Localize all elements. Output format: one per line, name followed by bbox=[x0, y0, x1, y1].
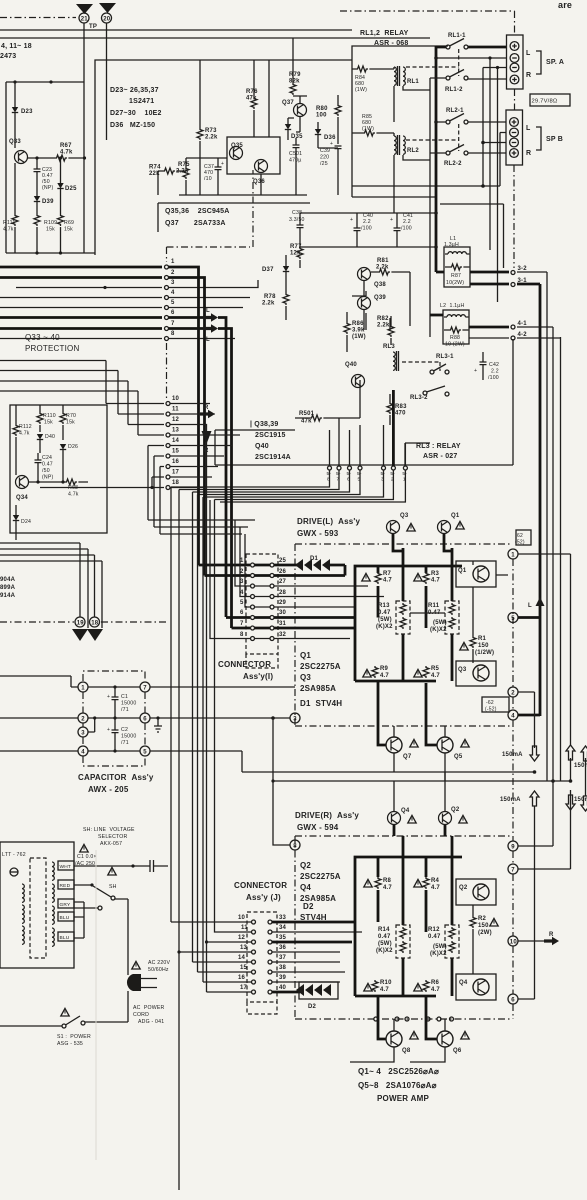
svg-text:15: 15 bbox=[172, 449, 180, 455]
transistor Q6 output bbox=[426, 996, 437, 1039]
coil L1 box bbox=[444, 247, 470, 287]
svg-text:2: 2 bbox=[511, 691, 515, 697]
node circle 7 bbox=[508, 864, 518, 874]
svg-text:SH: LINE VOLTAGE: SH: LINE VOLTAGE bbox=[83, 827, 135, 833]
svg-text:LTT - 762: LTT - 762 bbox=[2, 852, 26, 858]
resistor R12 dashed box bbox=[445, 925, 459, 958]
svg-text:ADG - 041: ADG - 041 bbox=[138, 1019, 164, 1025]
wire bold pin1 drop bbox=[169, 267, 199, 565]
switch S1 bbox=[61, 1008, 69, 1016]
svg-text:RL3 : RELAY: RL3 : RELAY bbox=[416, 443, 461, 450]
svg-text:Q35,36 2SC945A: Q35,36 2SC945A bbox=[165, 208, 230, 215]
label pins 1-8 bbox=[171, 259, 175, 337]
svg-text:12: 12 bbox=[172, 417, 180, 423]
svg-text:31: 31 bbox=[279, 621, 287, 627]
svg-text:+: + bbox=[107, 694, 110, 700]
relay contact RL1-2 bbox=[446, 76, 450, 80]
svg-text:Q4: Q4 bbox=[459, 980, 468, 986]
svg-text:34: 34 bbox=[279, 925, 287, 931]
wire row pin8 bbox=[0, 338, 162, 340]
wire conn J right rows bbox=[272, 922, 355, 942]
resistor R13 dashed box bbox=[396, 601, 410, 634]
svg-text:39: 39 bbox=[279, 975, 287, 981]
svg-text:2.2k: 2.2k bbox=[205, 135, 218, 141]
svg-text:33: 33 bbox=[279, 915, 287, 921]
svg-text:BLU: BLU bbox=[60, 915, 70, 921]
wire pin stubs right bbox=[170, 435, 240, 488]
wire 534 upper bbox=[534, 692, 536, 715]
svg-text:9: 9 bbox=[511, 845, 515, 851]
resistor R14 dashed box bbox=[396, 925, 410, 958]
transistor Q39 bbox=[358, 297, 371, 310]
svg-text:Q38: Q38 bbox=[374, 282, 386, 288]
diode D39 bbox=[34, 196, 40, 202]
wire L2 out bbox=[430, 314, 443, 317]
svg-text:10: 10 bbox=[510, 940, 518, 946]
wire SPA minus2 bbox=[483, 68, 507, 187]
connector I box bbox=[246, 554, 278, 654]
capacitor C23 bbox=[36, 158, 38, 169]
svg-text:21: 21 bbox=[81, 16, 89, 22]
svg-text:4.7k: 4.7k bbox=[19, 431, 30, 437]
svg-text:R13: R13 bbox=[378, 603, 390, 609]
node 18b bbox=[90, 617, 100, 627]
resistor R9 bbox=[363, 669, 371, 677]
svg-text:R80: R80 bbox=[316, 106, 328, 112]
svg-text:C1: C1 bbox=[121, 694, 128, 700]
svg-text:Q1: Q1 bbox=[300, 651, 311, 660]
wire L-box outer corner bbox=[440, 204, 504, 268]
wire rail 781 bbox=[273, 718, 571, 781]
svg-text:15: 15 bbox=[240, 965, 248, 971]
connector row on dashdot bbox=[374, 1017, 378, 1021]
svg-text:L: L bbox=[206, 337, 210, 343]
svg-text:5: 5 bbox=[171, 300, 175, 306]
svg-text:AKX-057: AKX-057 bbox=[100, 841, 122, 847]
relay contact RL2-2 bbox=[446, 151, 450, 155]
fuse bbox=[10, 868, 18, 876]
wire row pin11 bbox=[118, 413, 164, 415]
wire left mid staircase bbox=[0, 543, 102, 628]
svg-text:C24: C24 bbox=[42, 455, 52, 461]
svg-text:0.47: 0.47 bbox=[42, 462, 53, 468]
wire row pin3 bbox=[16, 287, 162, 289]
svg-text:Ass'y (J): Ass'y (J) bbox=[246, 893, 281, 902]
wire plug to S1 bbox=[85, 991, 128, 1022]
svg-text:-62: -62 bbox=[486, 700, 494, 706]
wire from node20 bbox=[106, 23, 108, 141]
svg-text:R5: R5 bbox=[431, 666, 440, 672]
svg-text:(5W): (5W) bbox=[378, 617, 392, 623]
label 29.7V/8ohm bbox=[530, 94, 570, 106]
wire row pin17 bbox=[152, 477, 164, 488]
svg-text:1: 1 bbox=[81, 686, 85, 692]
wire conn J left feeds bbox=[171, 500, 251, 943]
svg-text:R10: R10 bbox=[380, 980, 392, 986]
svg-text:SELECTOR: SELECTOR bbox=[98, 834, 128, 840]
wire row pin5 bbox=[0, 307, 162, 309]
svg-text:TP: TP bbox=[89, 24, 97, 30]
label 5-x pins bbox=[327, 471, 408, 483]
svg-text:DRIVE(R) Ass'y: DRIVE(R) Ass'y bbox=[295, 811, 359, 820]
wire conn I thin rows bbox=[210, 500, 250, 639]
svg-text:/100: /100 bbox=[361, 226, 372, 232]
capacitor assy node 6 bbox=[140, 713, 150, 723]
wire center bus 197 bbox=[197, 495, 199, 973]
svg-text:38: 38 bbox=[279, 965, 287, 971]
svg-text:15k: 15k bbox=[66, 420, 75, 426]
svg-text:4.7: 4.7 bbox=[431, 673, 440, 679]
wire bus y30 bbox=[0, 29, 352, 31]
terminal board SP.A bbox=[507, 35, 524, 89]
svg-text:13: 13 bbox=[172, 428, 180, 434]
wire right vertical 553 bbox=[552, 327, 554, 781]
transistor Q34 bbox=[16, 476, 29, 489]
svg-text:16: 16 bbox=[238, 975, 246, 981]
wire dashdot node bus bbox=[512, 559, 514, 1019]
svg-text:150mA: 150mA bbox=[500, 797, 521, 803]
svg-text:150: 150 bbox=[478, 923, 489, 929]
svg-text:2.2k: 2.2k bbox=[262, 301, 275, 307]
connector J pins left bbox=[252, 920, 256, 924]
node 20 bbox=[102, 13, 112, 23]
node circle 8 bbox=[290, 840, 300, 850]
protection box bbox=[10, 405, 107, 533]
svg-text:25: 25 bbox=[279, 558, 287, 564]
svg-text:RL2: RL2 bbox=[407, 148, 419, 154]
transistor Q3 power bbox=[456, 661, 496, 686]
wire row pin18 bbox=[40, 487, 164, 489]
svg-text:R4: R4 bbox=[431, 878, 440, 884]
svg-text:R3: R3 bbox=[431, 571, 440, 577]
svg-text:(1W): (1W) bbox=[355, 87, 367, 93]
diode D26 bbox=[60, 444, 66, 450]
svg-text:R1: R1 bbox=[478, 636, 487, 642]
svg-text:2473: 2473 bbox=[0, 53, 16, 60]
svg-text:3: 3 bbox=[81, 731, 85, 737]
label conn I numbers bbox=[240, 558, 287, 638]
connector pins 10-18 bbox=[166, 402, 170, 406]
wire right vertical 570 bbox=[518, 554, 571, 746]
box Q35 Q36 bbox=[227, 137, 280, 174]
svg-text:3-2: 3-2 bbox=[518, 266, 528, 272]
svg-text:(-52): (-52) bbox=[485, 707, 497, 713]
wire drive feed box bbox=[215, 339, 513, 465]
box 62 52 bbox=[516, 530, 531, 545]
diode D23 bbox=[14, 82, 16, 148]
wire SPB L bbox=[436, 121, 506, 123]
resistor R4 bbox=[414, 879, 422, 887]
diode D24 bbox=[15, 505, 17, 515]
svg-text:SP. A: SP. A bbox=[546, 59, 564, 66]
svg-text:4: 4 bbox=[171, 290, 175, 296]
svg-text:Q3: Q3 bbox=[458, 667, 467, 673]
connector pins 1-8 bbox=[165, 265, 169, 269]
svg-text:Q1: Q1 bbox=[451, 513, 460, 519]
node junction dots bbox=[13, 80, 16, 83]
svg-text:(2W): (2W) bbox=[478, 930, 492, 936]
svg-text:1: 1 bbox=[171, 259, 175, 265]
wire cap rows bbox=[0, 676, 295, 687]
svg-text:10(2W): 10(2W) bbox=[446, 280, 464, 286]
resistor R68 bbox=[65, 479, 77, 485]
wire circle2 out bbox=[518, 691, 535, 693]
svg-text:5: 5 bbox=[240, 600, 244, 606]
wire rl3 box bbox=[405, 443, 430, 466]
svg-text:S1 : POWER: S1 : POWER bbox=[57, 1034, 91, 1040]
svg-text:R73: R73 bbox=[205, 128, 217, 134]
label RED bbox=[58, 880, 74, 889]
resistor R5 bbox=[414, 669, 422, 677]
svg-text:0.47: 0.47 bbox=[428, 934, 441, 940]
svg-text:(K)X2: (K)X2 bbox=[376, 948, 393, 954]
svg-text:PROTECTION: PROTECTION bbox=[25, 344, 79, 353]
wire R arrow pin11 bbox=[170, 413, 200, 415]
svg-text:6: 6 bbox=[511, 998, 515, 1004]
wire cap rails bbox=[300, 213, 436, 247]
svg-text:R7: R7 bbox=[383, 571, 392, 577]
svg-text:+: + bbox=[390, 217, 393, 223]
wire center bus 192 bbox=[192, 492, 194, 962]
svg-text:Q36: Q36 bbox=[253, 179, 265, 185]
svg-text:D27~30 10E2: D27~30 10E2 bbox=[110, 110, 162, 117]
svg-text:15000: 15000 bbox=[121, 734, 136, 740]
svg-text:2.2: 2.2 bbox=[491, 369, 499, 375]
svg-text:R69: R69 bbox=[64, 220, 74, 226]
resistor R88 bbox=[449, 327, 461, 333]
svg-text:Q37: Q37 bbox=[282, 100, 294, 106]
svg-text:BLU: BLU bbox=[60, 935, 70, 941]
svg-text:+: + bbox=[350, 217, 353, 223]
wire cap assy dashdot bbox=[83, 692, 145, 746]
svg-text:11: 11 bbox=[172, 407, 179, 413]
svg-text:17: 17 bbox=[240, 985, 248, 991]
node 19 bbox=[75, 617, 85, 627]
wire SPA minus bbox=[436, 57, 507, 59]
transformer T1 box bbox=[0, 842, 74, 968]
svg-text:RL1-2: RL1-2 bbox=[445, 87, 463, 93]
wire q35 cluster bbox=[179, 60, 307, 195]
wire row pin15 bbox=[154, 456, 248, 527]
capacitor assy node 1 bbox=[78, 682, 88, 692]
svg-text:8: 8 bbox=[240, 632, 244, 638]
node circle 4 bbox=[508, 710, 518, 720]
wire link RL1 bbox=[406, 49, 459, 76]
svg-text:2.2k: 2.2k bbox=[377, 323, 390, 329]
svg-text:GWX - 594: GWX - 594 bbox=[297, 823, 339, 832]
node TP20 triangle bbox=[99, 3, 116, 13]
coil L2 box bbox=[443, 310, 469, 344]
svg-text:L: L bbox=[528, 603, 532, 609]
svg-text:R87: R87 bbox=[451, 273, 461, 279]
svg-text:2SC1915: 2SC1915 bbox=[255, 432, 286, 439]
wire box bottom bbox=[6, 252, 95, 254]
svg-text:40: 40 bbox=[279, 985, 287, 991]
arrow up hollow c bbox=[530, 791, 539, 806]
svg-text:D2: D2 bbox=[303, 902, 314, 911]
wire mid vertical links bbox=[535, 715, 571, 999]
svg-text:Q4: Q4 bbox=[300, 883, 311, 892]
svg-text:CONNECTOR: CONNECTOR bbox=[218, 660, 271, 669]
svg-text:R12: R12 bbox=[428, 927, 440, 933]
svg-text:Q2: Q2 bbox=[451, 807, 460, 813]
svg-text:C42: C42 bbox=[489, 362, 499, 368]
wire bold L arrow pin6 bbox=[169, 316, 204, 319]
svg-text:4.7k: 4.7k bbox=[3, 227, 14, 233]
wire row pin14 bbox=[148, 446, 255, 521]
svg-text:Q5: Q5 bbox=[454, 754, 463, 760]
svg-text:GWX - 593: GWX - 593 bbox=[297, 529, 339, 538]
svg-text:Ass'y(I): Ass'y(I) bbox=[243, 672, 273, 681]
svg-text:470µ: 470µ bbox=[289, 158, 301, 164]
svg-text:L2 1.1µH: L2 1.1µH bbox=[440, 303, 464, 309]
svg-text:47k: 47k bbox=[301, 419, 312, 425]
svg-text:Q7: Q7 bbox=[403, 754, 412, 760]
svg-text:D37: D37 bbox=[262, 267, 274, 273]
wire TP dash-dot bbox=[0, 17, 76, 19]
wire row pin1 bold bbox=[0, 266, 162, 269]
wire rail 772 bbox=[242, 751, 535, 772]
svg-text:L: L bbox=[526, 125, 531, 132]
svg-text:+: + bbox=[474, 368, 477, 374]
wire dashdot conn link bbox=[166, 247, 168, 400]
svg-text:(NP): (NP) bbox=[42, 185, 54, 191]
svg-text:are: are bbox=[558, 0, 572, 10]
wire q7 q5 verticals bbox=[394, 726, 445, 781]
svg-text:(5W): (5W) bbox=[378, 941, 392, 947]
svg-text:16: 16 bbox=[172, 459, 180, 465]
svg-text:10 (2W): 10 (2W) bbox=[445, 342, 465, 348]
connector J pins right bbox=[268, 920, 272, 924]
wire row pin12 bbox=[128, 424, 164, 426]
wire center bus 179 bbox=[178, 490, 180, 1191]
svg-text:(5W): (5W) bbox=[433, 620, 447, 626]
wire row pin4 bbox=[0, 297, 162, 299]
svg-text:R67: R67 bbox=[60, 143, 72, 149]
svg-text:2SC2275A: 2SC2275A bbox=[300, 662, 341, 671]
wire q8 q6 stubs bbox=[350, 1019, 445, 1062]
svg-text:11: 11 bbox=[241, 925, 248, 931]
connector I pins left bbox=[251, 563, 255, 567]
svg-text:R112: R112 bbox=[19, 424, 32, 430]
svg-text:Q1: Q1 bbox=[458, 568, 467, 574]
svg-text:D25: D25 bbox=[65, 186, 77, 192]
wire node8 feed bbox=[273, 781, 291, 845]
svg-text:Q39: Q39 bbox=[374, 295, 386, 301]
svg-text:Q33: Q33 bbox=[9, 139, 21, 145]
svg-text:4.7: 4.7 bbox=[383, 578, 392, 584]
label WHT bbox=[58, 861, 74, 870]
svg-text:2: 2 bbox=[171, 270, 175, 276]
switch SH bbox=[108, 867, 116, 875]
svg-text:R88: R88 bbox=[450, 335, 460, 341]
svg-text:2.2: 2.2 bbox=[363, 219, 371, 225]
svg-text:R: R bbox=[526, 150, 531, 157]
svg-text:(K)X2: (K)X2 bbox=[376, 624, 393, 630]
svg-text:28: 28 bbox=[279, 590, 287, 596]
svg-text:4, 11~ 18: 4, 11~ 18 bbox=[1, 43, 32, 50]
svg-text:4: 4 bbox=[511, 714, 515, 720]
wire R down arrow pin12 bbox=[170, 425, 207, 432]
transistor Q1 power bbox=[456, 561, 496, 587]
label BLU bbox=[58, 912, 74, 921]
svg-text:R8: R8 bbox=[383, 878, 392, 884]
svg-text:18: 18 bbox=[172, 480, 180, 486]
svg-text:/25: /25 bbox=[320, 161, 328, 167]
warning C1 bbox=[80, 844, 88, 852]
svg-text:2SC2275A: 2SC2275A bbox=[300, 872, 341, 881]
wire relay box bbox=[352, 46, 500, 197]
svg-text:AC POWER: AC POWER bbox=[133, 1005, 165, 1011]
wire conn I right thin feeds bbox=[274, 586, 384, 639]
svg-text:D35: D35 bbox=[291, 134, 303, 140]
svg-text:ASG - 535: ASG - 535 bbox=[57, 1041, 83, 1047]
svg-text:R110: R110 bbox=[43, 413, 56, 419]
svg-text:(K)X2: (K)X2 bbox=[430, 951, 447, 957]
warning AC bbox=[132, 961, 140, 969]
svg-text:100: 100 bbox=[316, 113, 327, 119]
svg-text:R76: R76 bbox=[246, 89, 258, 95]
svg-text:R68: R68 bbox=[68, 485, 78, 491]
svg-text:150mA: 150mA bbox=[502, 752, 523, 758]
svg-text:/10: /10 bbox=[204, 176, 212, 182]
svg-text:/71: /71 bbox=[121, 707, 129, 713]
terminal board SP.B bbox=[506, 110, 523, 165]
svg-text:R: R bbox=[549, 932, 554, 938]
svg-text:RL1: RL1 bbox=[407, 79, 419, 85]
svg-text:STV4H: STV4H bbox=[300, 913, 327, 922]
diode D35 bbox=[287, 118, 289, 140]
svg-text:C1 0.0×: C1 0.0× bbox=[77, 854, 97, 860]
svg-text:D36 MZ-150: D36 MZ-150 bbox=[110, 122, 155, 129]
svg-text:WHT: WHT bbox=[60, 864, 72, 870]
wire right vertical 560 bbox=[560, 337, 562, 781]
svg-text:15k: 15k bbox=[46, 227, 55, 233]
capacitor assy node 4 bbox=[78, 746, 88, 756]
wire big box top bbox=[95, 60, 352, 255]
wire bus y38 bbox=[0, 37, 430, 39]
svg-text:RL1,2 RELAY: RL1,2 RELAY bbox=[360, 30, 409, 37]
svg-text:4.7: 4.7 bbox=[431, 885, 440, 891]
svg-text:2.2: 2.2 bbox=[403, 219, 411, 225]
svg-text:8: 8 bbox=[293, 844, 297, 850]
label conn J numbers bbox=[238, 915, 287, 991]
svg-text:D39: D39 bbox=[42, 199, 54, 205]
svg-text:R82: R82 bbox=[377, 316, 389, 322]
resistor R82 bbox=[388, 325, 394, 337]
svg-text:220: 220 bbox=[320, 155, 329, 161]
svg-text:R9: R9 bbox=[380, 666, 389, 672]
svg-text:904A: 904A bbox=[0, 577, 16, 583]
svg-text:AC 220V: AC 220V bbox=[148, 960, 171, 966]
node circle 2 bbox=[508, 687, 518, 697]
resistor R8 bbox=[364, 879, 372, 887]
wire right vertical 547 bbox=[517, 272, 547, 781]
svg-text:R: R bbox=[204, 448, 209, 454]
resistor R81 bbox=[378, 269, 390, 275]
transistor Q5 output bbox=[426, 683, 437, 745]
arrow up hollow edge bbox=[581, 746, 587, 761]
svg-text:27: 27 bbox=[279, 579, 287, 585]
svg-text:150m: 150m bbox=[574, 797, 587, 803]
diode D36 zener bbox=[317, 122, 319, 148]
svg-text:15k: 15k bbox=[44, 420, 53, 426]
capacitor C2 bbox=[113, 749, 116, 752]
svg-text:150: 150 bbox=[478, 643, 489, 649]
svg-text:2.2k: 2.2k bbox=[376, 265, 389, 271]
svg-text:/100: /100 bbox=[488, 375, 499, 381]
node circle 6 bbox=[508, 994, 518, 1004]
